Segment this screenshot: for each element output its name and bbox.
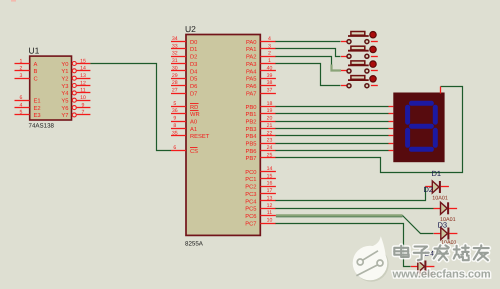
svg-text:PA6: PA6: [246, 83, 257, 90]
wire U2.PB5 to display segment pin: [276, 143, 389, 145]
pin U1 B (2): [15, 66, 38, 76]
diode D4 10A01: [411, 261, 435, 273]
pin U2 PB3 (21): [246, 123, 276, 133]
pin U2 RESET (35): [171, 130, 210, 140]
push button SW4: [341, 76, 378, 88]
display segments (digit 8): [405, 101, 438, 152]
pin U2 A1 (8): [171, 123, 197, 133]
7-segment display body: [389, 87, 445, 163]
svg-text:PA1: PA1: [246, 47, 257, 53]
push button SW3: [341, 61, 378, 73]
svg-text:11: 11: [267, 210, 272, 216]
svg-text:E3: E3: [34, 112, 41, 119]
svg-text:A: A: [34, 62, 38, 68]
pin U2 PC7 (10): [245, 217, 276, 227]
pin U2 PA6 (38): [246, 80, 276, 90]
svg-text:10: 10: [80, 95, 86, 101]
pin U1 Y1 (14): [61, 66, 90, 76]
wire U2.PA3 to button SW4: [276, 64, 341, 86]
svg-text:12: 12: [267, 203, 273, 209]
svg-text:29: 29: [172, 73, 178, 79]
svg-text:D0: D0: [190, 39, 197, 46]
svg-text:Y0: Y0: [61, 61, 68, 68]
pin U2 PC4 (13): [245, 195, 276, 205]
pin U2 D6 (28): [171, 80, 197, 90]
svg-text:14: 14: [80, 66, 86, 72]
pin U1 Y0 (15): [61, 58, 90, 68]
svg-text:2: 2: [268, 51, 271, 57]
op: IC U2 8255A body: [185, 24, 260, 248]
svg-text:PB6: PB6: [246, 148, 257, 155]
svg-text:D4: D4: [190, 69, 198, 75]
svg-text:Y7: Y7: [61, 113, 68, 119]
pin U2 PA2 (2): [246, 51, 276, 61]
pin U2 PC0 (14): [245, 166, 276, 176]
push button SW2: [341, 46, 378, 58]
pin U1 Y7 (7): [61, 110, 90, 120]
pin U2 PA1 (3): [246, 43, 276, 53]
op: IC U1 74AS138 body: [29, 46, 72, 130]
svg-text:30: 30: [172, 65, 178, 71]
svg-text:1: 1: [20, 58, 23, 64]
svg-text:4: 4: [268, 36, 271, 42]
wire U2.PB2 to display segment pin: [276, 121, 389, 123]
svg-text:25: 25: [267, 152, 273, 158]
svg-text:PB0: PB0: [246, 104, 257, 111]
svg-text:74AS138: 74AS138: [29, 123, 55, 130]
svg-text:31: 31: [172, 58, 178, 64]
wire U2.PB6 to display segment pin: [276, 150, 389, 152]
pin U1 Y6 (9): [61, 102, 90, 112]
svg-text:D3: D3: [438, 221, 448, 230]
watermark elecfans logo: [353, 236, 389, 281]
svg-text:37: 37: [267, 88, 273, 94]
diode D1 10A01: [425, 181, 449, 193]
svg-text:WR: WR: [190, 112, 200, 118]
wire diagonal PC6 to D3: [403, 216, 434, 234]
pin U2 PB7 (25): [246, 152, 276, 162]
svg-text:PA3: PA3: [246, 61, 257, 68]
diode D3 10A01: [434, 228, 458, 240]
wire U2.PB3 to display segment pin: [276, 128, 389, 130]
svg-text:5: 5: [173, 101, 176, 107]
svg-text:D1: D1: [432, 169, 442, 178]
svg-text:RD: RD: [190, 105, 198, 111]
svg-text:10A01: 10A01: [432, 196, 448, 202]
svg-text:PA2: PA2: [246, 54, 257, 61]
svg-text:PA0: PA0: [246, 39, 257, 46]
svg-text:34: 34: [172, 36, 178, 42]
svg-text:Y4: Y4: [61, 91, 69, 97]
svg-text:24: 24: [267, 145, 273, 151]
svg-text:PB3: PB3: [246, 126, 257, 133]
pin U1 Y2 (13): [61, 73, 90, 83]
wire U2.PB1 to display segment pin: [276, 113, 389, 115]
svg-text:Y6: Y6: [61, 105, 68, 112]
svg-text:35: 35: [172, 130, 178, 136]
pin U1 A (1): [15, 58, 38, 68]
pin U2 PB4 (22): [246, 130, 276, 140]
svg-text:PC1: PC1: [245, 176, 256, 183]
pin U2 PC6 (11): [245, 210, 276, 220]
svg-text:10: 10: [267, 217, 273, 223]
pin U2 D1 (33): [171, 43, 197, 53]
svg-text:5: 5: [20, 110, 23, 116]
pin U1 E2 (4): [15, 102, 41, 112]
pin U2 WR (36): [171, 108, 200, 118]
pin U1 Y4 (11): [61, 88, 90, 98]
pin U1 E1 (6): [15, 95, 41, 105]
wire U2.PB0 to display segment pin: [276, 106, 389, 108]
svg-text:PA7: PA7: [246, 91, 257, 97]
svg-text:40: 40: [267, 65, 273, 71]
svg-text:D7: D7: [190, 91, 197, 97]
svg-text:36: 36: [172, 108, 178, 114]
svg-text:19: 19: [267, 108, 273, 114]
svg-text:A1: A1: [190, 127, 197, 133]
svg-text:39: 39: [267, 73, 273, 79]
wire PA2 olive segment into SW3: [332, 65, 342, 71]
pin U2 D3 (31): [171, 58, 197, 68]
pin U2 A0 (9): [171, 116, 197, 126]
pin U2 PA3 (1): [246, 58, 276, 68]
svg-text:CS: CS: [190, 148, 198, 155]
pin U2 PB1 (19): [246, 108, 276, 118]
pin U2 PC2 (16): [245, 181, 276, 191]
svg-text:18: 18: [267, 101, 273, 107]
pin U2 PC1 (15): [245, 173, 276, 183]
svg-text:33: 33: [172, 43, 178, 49]
wire U2.PC7 to diode D4 anode: [276, 224, 411, 267]
svg-text:13: 13: [80, 73, 86, 79]
svg-text:28: 28: [172, 80, 178, 86]
pin U2 D0 (34): [171, 36, 197, 46]
wire U2.PA2 to button SW3: [276, 57, 332, 71]
svg-text:32: 32: [172, 51, 178, 57]
svg-text:12: 12: [80, 80, 86, 86]
pin U2 D7 (27): [171, 88, 197, 98]
svg-text:PC3: PC3: [245, 191, 256, 198]
svg-text:PA5: PA5: [246, 77, 257, 83]
svg-text:PB1: PB1: [246, 112, 257, 118]
pin U2 PC3 (17): [245, 188, 276, 198]
svg-text:Y2: Y2: [61, 76, 68, 83]
svg-text:PC2: PC2: [245, 184, 256, 191]
pin U2 PA7 (37): [246, 88, 276, 98]
svg-text:13: 13: [267, 195, 273, 201]
svg-text:RESET: RESET: [190, 133, 210, 140]
svg-text:U2: U2: [185, 24, 196, 34]
svg-text:PC7: PC7: [245, 220, 256, 227]
svg-text:E1: E1: [34, 99, 41, 105]
pin U2 PA0 (4): [246, 36, 276, 46]
svg-text:D3: D3: [190, 61, 197, 68]
svg-text:www.elecfans.com: www.elecfans.com: [392, 269, 491, 281]
svg-text:D6: D6: [190, 83, 197, 90]
pin U2 D2 (32): [171, 51, 197, 61]
svg-text:7: 7: [82, 110, 85, 116]
svg-text:22: 22: [267, 130, 273, 136]
svg-text:27: 27: [172, 88, 178, 94]
wire U2.PC4 to diode D1 anode: [276, 187, 426, 201]
pin U1 E3 (5): [15, 110, 41, 120]
screen artifact top-left: [11, 0, 16, 2]
pin U1 C (3): [15, 73, 38, 83]
svg-text:15: 15: [80, 58, 86, 64]
diode D2 10A01: [434, 202, 458, 214]
wire U2.PC5 to diode D2 anode: [276, 208, 434, 210]
pin U2 CS (6): [171, 145, 198, 155]
pin U2 PB5 (23): [246, 138, 276, 148]
svg-text:D1: D1: [190, 47, 197, 53]
svg-text:17: 17: [267, 188, 273, 194]
svg-text:23: 23: [267, 138, 273, 144]
pin U2 RD (5): [171, 101, 199, 111]
pin U2 PB2 (20): [246, 116, 276, 126]
watermark text CJK dianzifashaoyou: [394, 245, 488, 260]
svg-text:PC5: PC5: [245, 206, 256, 213]
svg-text:9: 9: [82, 102, 85, 108]
svg-text:Y3: Y3: [61, 83, 68, 90]
push button SW1: [341, 32, 378, 44]
svg-text:21: 21: [267, 123, 273, 129]
svg-text:PB5: PB5: [246, 142, 257, 148]
wire U2.PA0 to button SW1: [276, 41, 341, 43]
pin U2 PA5 (39): [246, 73, 276, 83]
pin U1 Y3 (12): [61, 80, 90, 90]
wire U2.PC6 to diode D3 anode (thick): [276, 214, 403, 217]
svg-text:PB7: PB7: [246, 156, 257, 162]
svg-text:Y5: Y5: [61, 99, 68, 105]
svg-text:3: 3: [20, 73, 23, 79]
svg-text:6: 6: [20, 95, 23, 101]
svg-text:8255A: 8255A: [185, 241, 204, 248]
svg-text:6: 6: [173, 145, 176, 151]
svg-text:D2: D2: [424, 185, 434, 194]
svg-text:11: 11: [80, 88, 85, 94]
pin U2 PC5 (12): [245, 203, 276, 213]
svg-text:D5: D5: [190, 77, 197, 83]
svg-text:B: B: [34, 69, 38, 75]
svg-text:2: 2: [20, 66, 23, 72]
svg-text:Y1: Y1: [61, 69, 68, 75]
svg-text:20: 20: [267, 116, 273, 122]
svg-text:U1: U1: [29, 46, 40, 56]
pin U2 D4 (30): [171, 65, 198, 75]
svg-text:E2: E2: [34, 105, 41, 112]
wire U2.PA1 to button SW2: [276, 49, 341, 57]
pin U2 PB6 (24): [246, 145, 276, 155]
wire U1.Y0 to U2.CS: [90, 64, 171, 151]
wire U2.PB7 to display common anode pin: [276, 87, 463, 173]
svg-text:8: 8: [173, 123, 176, 129]
svg-text:38: 38: [267, 80, 273, 86]
pin U1 Y5 (10): [61, 95, 90, 105]
svg-text:3: 3: [268, 43, 271, 49]
svg-text:PA4: PA4: [246, 69, 257, 75]
wire U2.PB4 to display segment pin: [276, 135, 389, 137]
svg-text:C: C: [34, 76, 38, 83]
svg-text:PC6: PC6: [245, 213, 256, 220]
svg-text:A0: A0: [190, 119, 197, 126]
svg-text:1: 1: [268, 58, 271, 64]
svg-text:16: 16: [267, 181, 273, 187]
pin U2 D5 (29): [171, 73, 197, 83]
svg-text:4: 4: [20, 102, 23, 108]
pin U2 PB0 (18): [246, 101, 276, 111]
svg-text:9: 9: [173, 116, 176, 122]
svg-text:D2: D2: [190, 54, 197, 61]
svg-text:PC0: PC0: [245, 169, 256, 176]
svg-text:15: 15: [267, 173, 273, 179]
svg-text:PB2: PB2: [246, 119, 257, 126]
svg-text:PB4: PB4: [246, 134, 258, 140]
svg-text:PC4: PC4: [245, 198, 257, 205]
svg-text:14: 14: [267, 166, 273, 172]
pin U2 PA4 (40): [246, 65, 276, 75]
